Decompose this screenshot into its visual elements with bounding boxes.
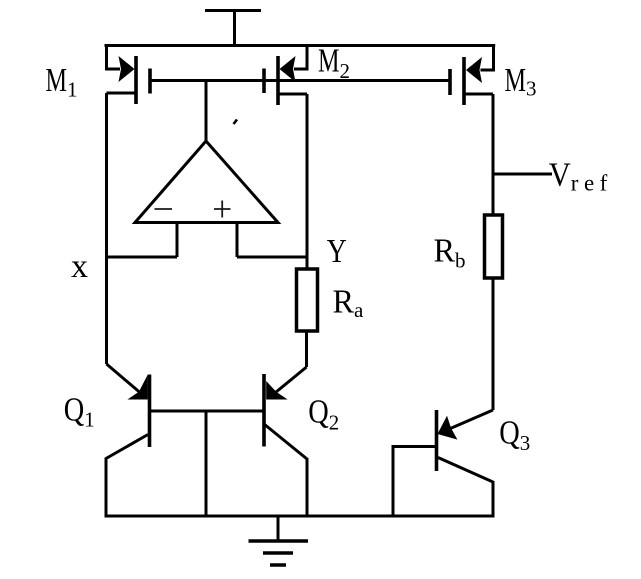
transistor Q3 (393, 410, 493, 518)
svg-text:Q2: Q2 (308, 394, 339, 435)
wire: Vref tap (493, 173, 552, 176)
transistor M1 (107, 44, 151, 104)
wire: top supply rail (105, 44, 496, 47)
resistor Ra (297, 269, 318, 331)
wire: M1 drain / node x vertical (105, 93, 108, 364)
op-amp U1 (135, 141, 278, 257)
wire: Rb to Q3 emitter (492, 278, 495, 410)
resistor Rb (485, 215, 503, 278)
svg-text:x: x (71, 248, 88, 285)
wire: base to bottom rail dropper (205, 411, 208, 518)
wire: op-amp output to gate bus (205, 81, 208, 143)
transistor M2 (264, 44, 307, 105)
svg-text:M3: M3 (505, 62, 537, 101)
transistor Q1 (106, 364, 150, 518)
VDD power symbol (205, 11, 261, 48)
svg-text:Q3: Q3 (499, 415, 530, 456)
svg-text:Q1: Q1 (64, 392, 95, 432)
wire: gate bus M1-M2-M3 (150, 79, 450, 82)
svg-text:M1: M1 (46, 62, 78, 102)
transistor Q2 (264, 367, 307, 518)
wire: Q1-Q2 common base (150, 410, 265, 413)
wire: bottom rail (105, 515, 495, 518)
wire: M3 drain to Rb (492, 94, 495, 215)
stray mark (234, 120, 238, 125)
ground (249, 516, 309, 565)
wire: inverting input to node x (107, 256, 178, 259)
wire: M2 drain to Ra (306, 94, 309, 269)
svg-text:Vref: Vref (549, 157, 613, 196)
svg-text:Ra: Ra (333, 284, 365, 323)
transistor M3 (450, 44, 494, 105)
svg-text:Rb: Rb (434, 233, 466, 273)
wire: non-inverting input to node Y (237, 256, 307, 259)
svg-text:Y: Y (327, 233, 347, 270)
wire: Ra to Q2 emitter (305, 331, 308, 367)
svg-text:M2: M2 (318, 43, 350, 83)
